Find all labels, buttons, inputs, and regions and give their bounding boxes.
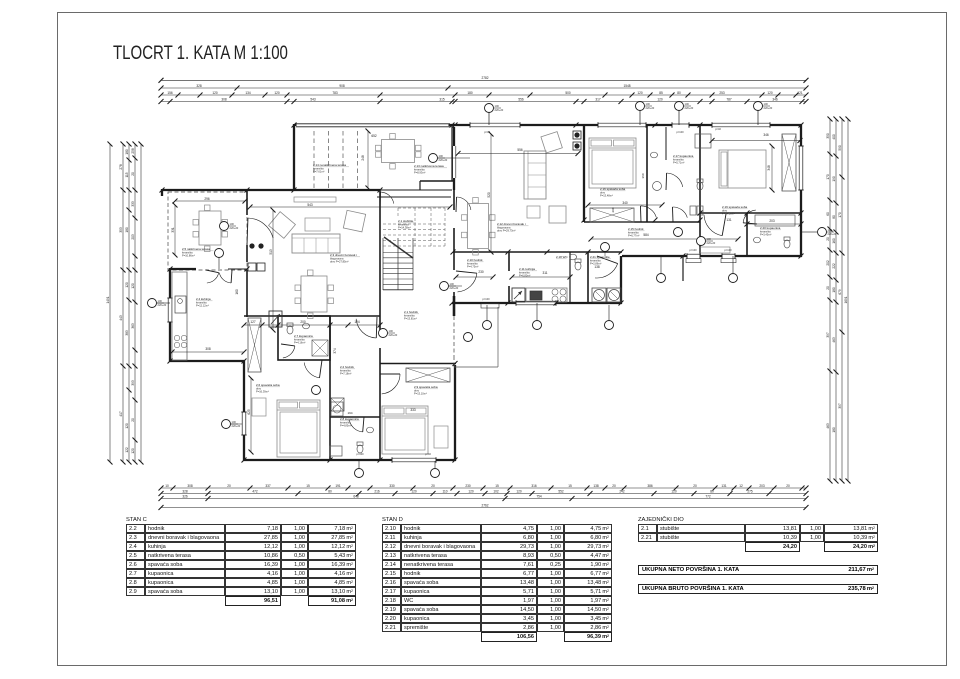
svg-text:203: 203 <box>131 234 135 240</box>
svg-text:220+20: 220+20 <box>495 108 504 112</box>
svg-text:2.6 spavaća soba: 2.6 spavaća soba <box>256 383 280 387</box>
bath 2.20 fixtures <box>755 215 795 226</box>
nenatkrivena terasa D outline <box>497 307 499 367</box>
living D sofa <box>524 151 546 199</box>
svg-text:100: 100 <box>764 102 769 106</box>
svg-text:120: 120 <box>657 97 663 101</box>
svg-text:2.4 kuhinja: 2.4 kuhinja <box>196 297 211 301</box>
living C tv bench <box>294 197 336 202</box>
svg-text:220+20: 220+20 <box>685 106 694 110</box>
wardrobe 2.9 <box>406 368 450 382</box>
bed 2.19 <box>719 150 766 188</box>
svg-text:160: 160 <box>832 238 836 244</box>
svg-text:134: 134 <box>245 91 251 95</box>
terrace C dashed outline <box>168 192 247 270</box>
svg-text:194: 194 <box>354 320 360 324</box>
window marks left wall <box>167 298 172 322</box>
kitchen top wall / terrace C bottom <box>170 268 196 270</box>
svg-text:543: 543 <box>307 203 313 207</box>
svg-text:100: 100 <box>232 420 237 424</box>
kitchen C counter <box>172 272 187 360</box>
svg-text:15: 15 <box>568 484 572 488</box>
svg-text:P=4,16m²: P=4,16m² <box>294 341 305 345</box>
svg-text:2.2 hodnik: 2.2 hodnik <box>340 365 354 369</box>
svg-text:120: 120 <box>131 448 135 454</box>
svg-text:2782: 2782 <box>481 76 488 80</box>
svg-text:P=8,93m²: P=8,93m² <box>414 171 425 175</box>
svg-text:220+20: 220+20 <box>232 424 241 428</box>
bottom wall right section <box>622 255 802 257</box>
svg-text:590: 590 <box>838 145 842 151</box>
svg-text:20: 20 <box>786 484 790 488</box>
kitchen D counter <box>526 288 567 302</box>
kitchen C bottom exterior wall <box>169 360 245 362</box>
svg-text:383: 383 <box>125 330 129 336</box>
stan C bottom exterior wall <box>243 459 456 461</box>
WC 2.18 fixtures <box>575 262 581 270</box>
svg-text:190: 190 <box>832 176 836 182</box>
svg-text:138: 138 <box>593 484 599 488</box>
svg-text:2.14 nenatkrivena terasa: 2.14 nenatkrivena terasa <box>313 163 346 167</box>
svg-text:2.8 kupaonica: 2.8 kupaonica <box>340 417 359 421</box>
washers in spremiste <box>592 288 606 302</box>
wardrobe 2.16 <box>590 208 634 222</box>
kitchen D niche with arrow <box>512 288 525 302</box>
svg-text:p=100: p=100 <box>724 248 732 252</box>
svg-text:203: 203 <box>769 219 775 223</box>
svg-text:121: 121 <box>797 91 803 95</box>
svg-text:P=4,85m²: P=4,85m² <box>340 424 351 428</box>
spremiste/kitchen bottom wall <box>452 302 622 304</box>
exterior door gaps bottom-right wall <box>687 253 700 258</box>
svg-text:328: 328 <box>182 489 188 493</box>
svg-text:520: 520 <box>487 192 491 198</box>
bed 2.19 bottom wall <box>700 212 802 214</box>
svg-text:308: 308 <box>205 347 211 351</box>
svg-text:120: 120 <box>274 91 280 95</box>
window marks bottom wall C <box>392 457 436 462</box>
svg-text:230: 230 <box>465 484 471 488</box>
fireplace niche <box>269 311 282 327</box>
bedroom 2.9 right wall <box>454 365 456 461</box>
svg-text:500: 500 <box>565 91 571 95</box>
wall junction ticks <box>292 123 297 128</box>
svg-text:191: 191 <box>335 484 341 488</box>
kitchen D / hall band top wall <box>453 251 622 253</box>
staircase dashed upper flight <box>383 223 445 225</box>
svg-text:296: 296 <box>204 197 210 201</box>
svg-text:120: 120 <box>637 91 643 95</box>
bed 2.9 <box>382 406 428 454</box>
svg-text:100: 100 <box>439 154 444 158</box>
svg-text:80: 80 <box>677 91 681 95</box>
svg-text:80: 80 <box>328 489 332 493</box>
svg-text:100: 100 <box>450 282 455 286</box>
window terrace-living D wall <box>452 146 456 178</box>
svg-text:2.18 WC: 2.18 WC <box>556 255 569 259</box>
svg-text:2.19 spavaća soba: 2.19 spavaća soba <box>722 205 748 209</box>
svg-text:386: 386 <box>647 484 653 488</box>
svg-text:180: 180 <box>467 91 473 95</box>
svg-text:360: 360 <box>641 173 645 178</box>
svg-text:222: 222 <box>832 263 836 269</box>
svg-text:p=100: p=100 <box>676 130 684 134</box>
svg-text:331: 331 <box>171 227 175 233</box>
svg-text:625: 625 <box>247 409 251 415</box>
svg-text:311: 311 <box>542 271 547 275</box>
svg-text:160: 160 <box>235 289 239 295</box>
svg-text:2.3 dnevni boravak i: 2.3 dnevni boravak i <box>330 253 357 257</box>
svg-text:220+20: 220+20 <box>450 286 459 290</box>
terrace C table <box>199 211 221 245</box>
svg-text:220+20: 220+20 <box>828 232 837 236</box>
stair cut line <box>384 237 413 258</box>
svg-text:drvo P=29,73m²: drvo P=29,73m² <box>497 229 516 233</box>
svg-text:220+20: 220+20 <box>646 106 655 110</box>
svg-text:242: 242 <box>619 489 625 493</box>
svg-text:397: 397 <box>826 332 830 338</box>
svg-text:P=16,39m²: P=16,39m² <box>256 390 269 394</box>
vent/marker circles with stems <box>488 108 490 125</box>
svg-text:463: 463 <box>826 423 830 429</box>
svg-text:253: 253 <box>719 91 725 95</box>
svg-text:20: 20 <box>227 484 231 488</box>
window kitchen D bottom wall <box>516 300 556 305</box>
svg-text:316: 316 <box>531 484 537 488</box>
svg-text:552: 552 <box>558 489 564 493</box>
staircase 2.1 treads <box>383 252 413 254</box>
svg-text:120: 120 <box>671 489 677 493</box>
svg-text:20: 20 <box>693 484 697 488</box>
svg-text:2.11 kuhinja: 2.11 kuhinja <box>519 267 535 271</box>
svg-text:20: 20 <box>431 484 435 488</box>
bathroom 2.7 <box>278 316 330 360</box>
svg-text:120: 120 <box>125 423 129 429</box>
svg-text:2.1 stubište: 2.1 stubište <box>398 219 414 223</box>
svg-text:220+20: 220+20 <box>158 303 167 307</box>
svg-text:194: 194 <box>347 411 352 415</box>
hodnik D radiator <box>700 247 730 253</box>
svg-text:80: 80 <box>832 215 836 219</box>
svg-text:772: 772 <box>705 494 711 498</box>
svg-text:543: 543 <box>310 97 316 101</box>
svg-text:2.16 spavaća soba: 2.16 spavaća soba <box>600 187 626 191</box>
top exterior wall <box>294 124 802 126</box>
svg-text:2.10 hodnik: 2.10 hodnik <box>467 258 483 262</box>
kitchen-living wall x=247 <box>246 190 248 215</box>
svg-text:2.1 hodnik: 2.1 hodnik <box>404 310 418 314</box>
svg-text:1491: 1491 <box>106 296 110 303</box>
svg-text:p=40: p=40 <box>425 452 431 456</box>
bath 2.20 left wall <box>746 213 748 256</box>
terrace block left wall <box>293 124 295 191</box>
svg-text:308: 308 <box>221 97 227 101</box>
svg-text:333: 333 <box>131 201 135 207</box>
svg-text:783: 783 <box>332 91 338 95</box>
svg-text:2.20 kupaonica: 2.20 kupaonica <box>760 226 781 230</box>
svg-text:353: 353 <box>119 227 123 233</box>
svg-text:787: 787 <box>726 97 732 101</box>
svg-text:131: 131 <box>721 484 727 488</box>
svg-text:472: 472 <box>252 489 258 493</box>
svg-text:2.7 kupaonica: 2.7 kupaonica <box>294 334 313 338</box>
svg-text:374: 374 <box>333 348 337 354</box>
bath 2.7 fixtures <box>287 326 293 334</box>
svg-text:20: 20 <box>131 172 135 176</box>
svg-text:80: 80 <box>710 489 714 493</box>
bed 2.6 <box>277 400 320 457</box>
svg-text:1691: 1691 <box>844 296 848 303</box>
svg-text:337: 337 <box>265 484 271 488</box>
svg-text:P=5,71m²: P=5,71m² <box>673 161 684 165</box>
living C armchair left (rotated) <box>269 212 296 239</box>
svg-text:p=100: p=100 <box>689 248 697 252</box>
stan C left exterior wall <box>169 268 171 362</box>
svg-text:2.5 natkrivena terasa: 2.5 natkrivena terasa <box>182 247 210 251</box>
svg-text:10: 10 <box>165 484 169 488</box>
svg-text:100: 100 <box>646 102 651 106</box>
svg-text:417: 417 <box>119 411 123 417</box>
svg-text:2.17 kupaonica: 2.17 kupaonica <box>673 154 694 158</box>
svg-text:20: 20 <box>131 418 135 422</box>
stair top wall <box>377 196 451 198</box>
svg-text:100: 100 <box>495 104 500 108</box>
svg-text:100: 100 <box>389 329 394 333</box>
svg-text:20: 20 <box>612 484 616 488</box>
svg-text:1548: 1548 <box>623 84 630 88</box>
exterior door gap top wall bed area <box>672 122 689 127</box>
svg-text:326: 326 <box>182 494 188 498</box>
svg-text:12: 12 <box>739 484 743 488</box>
svg-text:P=7,61m²: P=7,61m² <box>313 170 324 174</box>
svg-text:248: 248 <box>361 155 365 161</box>
svg-text:363: 363 <box>131 323 135 329</box>
svg-text:308: 308 <box>187 484 193 488</box>
svg-text:120: 120 <box>468 489 474 493</box>
svg-text:p=100: p=100 <box>482 297 490 301</box>
svg-text:220+20: 220+20 <box>230 226 239 230</box>
svg-text:P=4,75m²: P=4,75m² <box>467 265 478 269</box>
svg-text:2.13 natkrivena terasa: 2.13 natkrivena terasa <box>414 164 444 168</box>
hall D left spine wall <box>453 127 455 190</box>
svg-text:P=14,50m²: P=14,50m² <box>722 212 735 216</box>
svg-text:120: 120 <box>131 283 135 289</box>
svg-text:15: 15 <box>495 484 499 488</box>
svg-text:100: 100 <box>707 237 712 241</box>
svg-text:220+20: 220+20 <box>439 158 448 162</box>
stan C lower-left exterior wall <box>243 360 245 461</box>
living D armchair <box>541 132 562 153</box>
svg-text:p=40: p=40 <box>484 130 490 134</box>
svg-text:258: 258 <box>131 148 135 154</box>
terrace 2.13 bottom wall <box>420 180 454 182</box>
svg-text:110: 110 <box>442 489 447 493</box>
title <box>113 43 288 65</box>
svg-text:P=7,18m²: P=7,18m² <box>340 372 351 376</box>
stan C top wall <box>162 189 380 191</box>
svg-text:85: 85 <box>659 91 663 95</box>
svg-text:120: 120 <box>125 282 129 288</box>
svg-text:463: 463 <box>832 337 836 343</box>
svg-text:120: 120 <box>516 489 522 493</box>
svg-text:652: 652 <box>371 134 377 138</box>
svg-text:100: 100 <box>158 299 163 303</box>
svg-text:908: 908 <box>339 84 345 88</box>
svg-text:275: 275 <box>747 489 753 493</box>
svg-text:348: 348 <box>767 165 771 171</box>
svg-text:333: 333 <box>410 408 416 412</box>
svg-text:315: 315 <box>439 97 445 101</box>
svg-text:P=13,48m²: P=13,48m² <box>600 194 613 198</box>
svg-text:400: 400 <box>832 134 836 140</box>
terrace block right wall <box>451 124 453 181</box>
svg-text:317: 317 <box>595 97 601 101</box>
svg-text:p=100: p=100 <box>356 452 364 456</box>
svg-text:P=13,81m²: P=13,81m² <box>404 317 417 321</box>
svg-text:120: 120 <box>212 91 218 95</box>
door arcs <box>207 273 219 283</box>
svg-text:P=3,45m²: P=3,45m² <box>760 233 771 237</box>
svg-text:127: 127 <box>250 320 256 324</box>
terrace D top table <box>382 140 415 163</box>
svg-text:120: 120 <box>767 91 773 95</box>
bath 2.17 / bed 2.19 wall <box>699 126 701 256</box>
living C coffee table <box>305 218 330 231</box>
svg-text:100: 100 <box>685 102 690 106</box>
svg-text:drvo P=27,85m²: drvo P=27,85m² <box>330 260 349 264</box>
svg-text:330: 330 <box>389 484 395 488</box>
svg-text:131: 131 <box>726 218 732 222</box>
svg-text:100: 100 <box>230 222 235 226</box>
bed 2.16 <box>589 138 636 188</box>
svg-text:p=40: p=40 <box>715 127 721 131</box>
svg-text:115: 115 <box>125 172 129 177</box>
hodnik 2.15 top wall <box>584 221 700 223</box>
svg-text:346: 346 <box>772 97 778 101</box>
bath 2.8 fixtures <box>331 398 344 411</box>
svg-text:216: 216 <box>374 489 380 493</box>
stan D interior: living/bed wall <box>583 126 585 222</box>
svg-text:2.12 dnevni boravak i: 2.12 dnevni boravak i <box>497 222 526 226</box>
svg-text:754: 754 <box>536 494 542 498</box>
svg-text:P=14,38m²: P=14,38m² <box>398 226 411 230</box>
svg-text:220+20: 220+20 <box>707 241 716 245</box>
svg-text:180: 180 <box>832 427 836 433</box>
bed 2.16 / bath 2.17 wall <box>646 126 648 222</box>
svg-text:20: 20 <box>826 237 830 241</box>
door step hall 2.10 <box>481 304 499 309</box>
svg-text:P=12,12m²: P=12,12m² <box>196 304 209 308</box>
svg-text:P=13,10m²: P=13,10m² <box>414 392 427 396</box>
svg-text:584: 584 <box>643 233 649 237</box>
dark squares markers <box>573 131 581 139</box>
window marks top wall <box>470 122 520 127</box>
svg-text:20: 20 <box>826 286 830 290</box>
svg-text:2.9 spavaća soba: 2.9 spavaća soba <box>414 385 438 389</box>
wardrobe 2.19 <box>782 134 796 191</box>
svg-text:220+20: 220+20 <box>764 106 773 110</box>
svg-text:122: 122 <box>125 447 129 453</box>
svg-text:2.15 hodnik: 2.15 hodnik <box>628 227 644 231</box>
right exterior wall <box>800 124 802 257</box>
pergola dashed slats terrace 2.14 <box>313 131 315 188</box>
svg-text:102: 102 <box>493 489 499 493</box>
svg-text:397: 397 <box>838 403 842 409</box>
svg-text:556: 556 <box>518 97 524 101</box>
svg-text:2762: 2762 <box>481 503 488 507</box>
svg-text:350: 350 <box>826 133 830 139</box>
svg-text:220+20: 220+20 <box>389 333 398 337</box>
svg-text:P=6,77m²: P=6,77m² <box>628 234 639 238</box>
svg-text:278: 278 <box>119 164 123 170</box>
living C right wall / stair spine <box>379 190 381 330</box>
svg-text:170: 170 <box>838 212 842 218</box>
top dimension chain <box>161 79 806 81</box>
window right wall <box>798 146 803 190</box>
stan C left upper corner <box>161 189 163 196</box>
svg-text:180: 180 <box>125 227 129 233</box>
window lower-left wall x=244 <box>241 412 246 435</box>
svg-text:15: 15 <box>306 484 310 488</box>
corridor wall stan C <box>244 315 380 317</box>
svg-text:180: 180 <box>832 287 836 293</box>
hall 2.2 / bath 2.8 walls <box>329 316 331 461</box>
svg-text:443: 443 <box>119 315 123 321</box>
living D dining table <box>468 204 489 249</box>
living C sofa <box>292 234 340 253</box>
right dimension chain <box>829 119 831 481</box>
living C armchair right <box>343 210 365 232</box>
svg-text:2.21 spremište: 2.21 spremište <box>590 255 610 259</box>
svg-text:203: 203 <box>759 484 765 488</box>
svg-text:328: 328 <box>196 84 202 88</box>
bath 2.17 fixtures <box>697 182 703 190</box>
svg-text:156: 156 <box>167 91 173 95</box>
svg-text:556: 556 <box>517 148 523 152</box>
living C dining table <box>301 276 327 312</box>
svg-text:393: 393 <box>131 380 135 386</box>
svg-text:340: 340 <box>622 201 628 205</box>
svg-text:346: 346 <box>763 133 769 137</box>
svg-text:648: 648 <box>353 494 359 498</box>
svg-text:180: 180 <box>125 149 129 155</box>
closet hatch 2.6 <box>248 318 261 372</box>
kitchen D box <box>508 252 510 271</box>
svg-text:679: 679 <box>838 289 842 295</box>
svg-text:202: 202 <box>826 260 830 266</box>
svg-text:120: 120 <box>411 489 417 493</box>
left dimension chain <box>109 144 111 462</box>
common hall bottom wall <box>380 363 456 365</box>
svg-text:230: 230 <box>478 270 484 274</box>
svg-text:290: 290 <box>611 207 615 212</box>
svg-text:138: 138 <box>594 265 600 269</box>
svg-text:170: 170 <box>826 174 830 180</box>
svg-text:200: 200 <box>300 320 306 324</box>
svg-text:60: 60 <box>826 212 830 216</box>
svg-text:P=10,86m²: P=10,86m² <box>182 254 195 258</box>
spremiste left wall <box>587 252 589 303</box>
bottom dimension chain <box>161 487 806 489</box>
terrace block top wall double face <box>297 124 449 128</box>
svg-text:513: 513 <box>269 249 273 255</box>
